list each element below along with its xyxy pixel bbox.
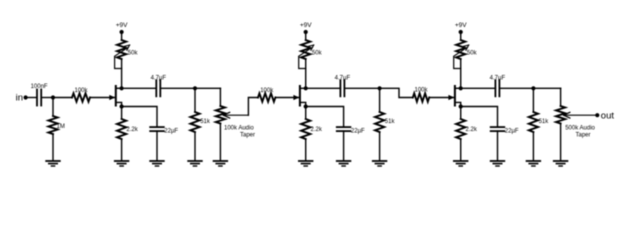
svg-text:100k Audio: 100k Audio	[224, 126, 254, 132]
svg-text:+9V: +9V	[116, 22, 128, 29]
svg-text:100k: 100k	[260, 88, 274, 94]
svg-text:2.2k: 2.2k	[126, 127, 138, 133]
svg-text:in: in	[16, 92, 23, 103]
svg-text:2.2k: 2.2k	[311, 127, 323, 133]
svg-text:Taper: Taper	[240, 132, 255, 138]
svg-text:50k: 50k	[467, 50, 478, 56]
svg-text:out: out	[601, 111, 615, 122]
svg-text:22µF: 22µF	[505, 128, 519, 134]
svg-text:51k: 51k	[385, 119, 396, 125]
svg-text:51k: 51k	[539, 119, 550, 125]
svg-text:4.7µF: 4.7µF	[490, 76, 506, 82]
svg-text:500k Audio: 500k Audio	[565, 126, 595, 132]
svg-text:50k: 50k	[312, 50, 323, 56]
svg-text:100nF: 100nF	[31, 84, 48, 90]
svg-text:Taper: Taper	[576, 132, 591, 138]
svg-text:22µF: 22µF	[164, 128, 178, 134]
svg-text:50k: 50k	[128, 50, 139, 56]
svg-text:+9V: +9V	[300, 22, 312, 29]
svg-text:22µF: 22µF	[351, 128, 365, 134]
svg-text:1M: 1M	[57, 124, 65, 130]
svg-text:4.7µF: 4.7µF	[335, 76, 351, 82]
svg-text:2.2k: 2.2k	[466, 127, 478, 133]
svg-text:+9V: +9V	[455, 22, 467, 29]
svg-text:100k: 100k	[414, 88, 428, 94]
svg-text:4.7µF: 4.7µF	[151, 76, 167, 82]
svg-text:100k: 100k	[74, 88, 88, 94]
svg-text:51k: 51k	[200, 119, 211, 125]
